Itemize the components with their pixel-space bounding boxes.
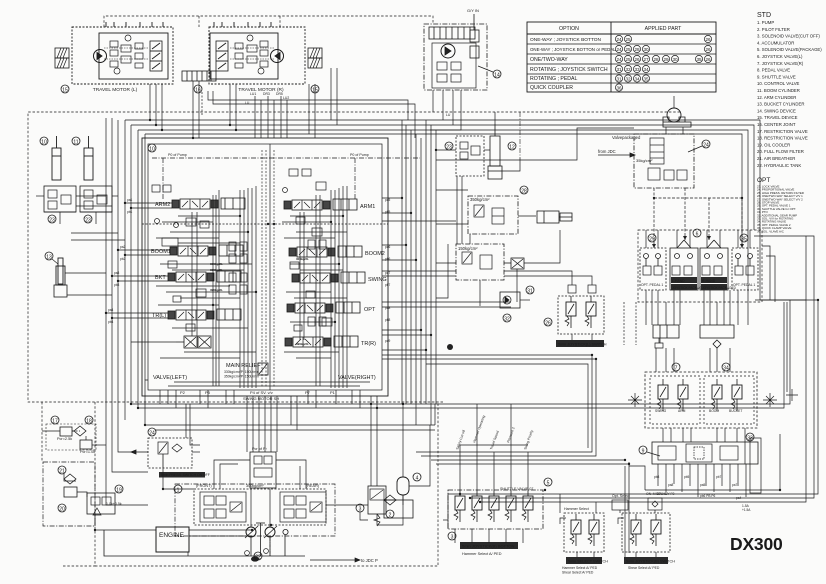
node 3b circle: [448, 532, 456, 541]
svg-text:15. TRAVEL DEVICE: 15. TRAVEL DEVICE: [757, 115, 798, 120]
svg-text:12. ARM CYLINDER: 12. ARM CYLINDER: [757, 95, 796, 100]
joystick switch bank: [618, 513, 670, 552]
svg-text:1. PUMP: 1. PUMP: [757, 20, 774, 25]
svg-text:24: 24: [616, 47, 622, 52]
wire: valve bottom port ticks: [160, 390, 360, 408]
air breather symbol: [663, 108, 691, 127]
svg-text:pa8: pa8: [385, 306, 391, 310]
svg-text:1.0k+0.5k: 1.0k+0.5k: [106, 502, 122, 506]
wire: left vertical bus: [106, 118, 148, 505]
svg-text:DR5: DR5: [276, 92, 283, 96]
pump circle 2: [265, 527, 275, 537]
svg-text:30: 30: [672, 57, 678, 62]
svg-text:5min JOYSTICK(B) SWITCH: 5min JOYSTICK(B) SWITCH: [626, 560, 675, 564]
svg-text:5min PRESS. SWITCH ON OFF: 5min PRESS. SWITCH ON OFF: [161, 473, 210, 477]
svg-text:Hammer Select A/ PED: Hammer Select A/ PED: [562, 566, 598, 570]
svg-text:13. BUCKET CYLINDER: 13. BUCKET CYLINDER: [757, 102, 804, 107]
option table: [527, 22, 716, 92]
svg-text:33: 33: [634, 67, 640, 72]
port relief valve pairs left: [229, 242, 247, 294]
joystick L switch label dark: [556, 340, 607, 347]
svg-text:to JDC P: to JDC P: [361, 558, 378, 563]
P0 of Pump labels: [168, 153, 369, 157]
wire: 5-bank feeds: [443, 404, 528, 543]
node 34 circle: [722, 363, 730, 372]
svg-text:35kg/cm²: 35kg/cm²: [636, 158, 653, 163]
svg-text:Valvepackaged: Valvepackaged: [612, 135, 641, 140]
svg-text:pa1: pa1: [127, 198, 133, 202]
svg-text:JOYSTICK PACKAGED: JOYSTICK PACKAGED: [702, 286, 737, 290]
svg-text:P0 of Pump: P0 of Pump: [168, 153, 187, 157]
svg-text:7: 7: [675, 366, 678, 372]
relief labels dark: [210, 257, 309, 346]
shuttle valve block: [652, 438, 761, 493]
wire: valve internal vertical columns right: [300, 186, 347, 388]
svg-text:24: 24: [149, 431, 155, 437]
svg-text:6. JOYSTICK VALVE(L): 6. JOYSTICK VALVE(L): [757, 54, 803, 59]
svg-text:9: 9: [642, 449, 645, 455]
wire: pump area connections: [95, 425, 430, 556]
svg-text:ROTATING ; PEDAL: ROTATING ; PEDAL: [530, 76, 577, 82]
svg-text:3. SOLENOID VALVE(CUT OFF): 3. SOLENOID VALVE(CUT OFF): [757, 34, 820, 39]
applied part circled numbers: [615, 35, 711, 91]
svg-text:BOOM2: BOOM2: [365, 251, 385, 257]
wire: swing device drops: [430, 90, 461, 130]
svg-text:36: 36: [616, 85, 622, 90]
svg-text:(FRONT): (FRONT): [196, 484, 212, 488]
valve row BOOM1: [162, 238, 243, 256]
svg-text:VALVE(LEFT): VALVE(LEFT): [153, 375, 187, 381]
svg-text:14. SWING DEVICE: 14. SWING DEVICE: [757, 108, 796, 113]
travel motor L tank hatch: [55, 48, 69, 58]
opt pedal 2: [732, 248, 758, 290]
svg-text:SWING: SWING: [368, 277, 387, 283]
svg-text:18: 18: [86, 419, 92, 425]
travel motor L assembly: [72, 22, 173, 84]
svg-text:24: 24: [703, 143, 709, 149]
node 19 circle: [115, 485, 123, 494]
svg-text:390kg/2L: 390kg/2L: [210, 288, 223, 292]
port relief valve pairs right: [308, 240, 326, 326]
pump circle 1: [246, 527, 256, 537]
svg-text:5min SELECT SWITCH: 5min SELECT SWITCH: [568, 560, 608, 564]
pump regulator right: [280, 492, 326, 522]
upper joystick valve group: [638, 230, 762, 302]
svg-text:pa6: pa6: [385, 245, 391, 249]
pump control box top: [238, 447, 290, 488]
riser labels: [245, 92, 451, 117]
wire: valve top risers: [255, 96, 287, 138]
svg-text:LU: LU: [446, 113, 451, 117]
svg-text:2. PILOT FILTER: 2. PILOT FILTER: [757, 27, 790, 32]
svg-text:pa9: pa9: [385, 339, 391, 343]
svg-text:pb1: pb1: [127, 210, 133, 214]
svg-text:33: 33: [747, 436, 753, 442]
svg-text:150kg/cm²: 150kg/cm²: [458, 246, 478, 251]
svg-text:TRAVEL MOTOR (L): TRAVEL MOTOR (L): [93, 87, 138, 93]
svg-text:35: 35: [643, 76, 649, 81]
svg-text:OPT. PEDAL 1: OPT. PEDAL 1: [641, 283, 663, 287]
svg-text:2: 2: [389, 513, 392, 519]
bank label dark: [460, 542, 518, 549]
suction lines: [189, 535, 285, 556]
overload relief block 350kg: [468, 196, 536, 234]
svg-text:300kg/2L: 300kg/2L: [296, 257, 309, 261]
svg-text:pa7: pa7: [385, 271, 391, 275]
main relief valve: [258, 363, 268, 375]
svg-text:10: 10: [41, 140, 47, 146]
svg-text:26: 26: [545, 321, 551, 327]
valve row OPT: [287, 302, 360, 313]
svg-text:DX300: DX300: [730, 534, 783, 554]
wire: valve internal pilot dash columns: [142, 150, 388, 388]
svg-text:17. RESTRICTION VALVE: 17. RESTRICTION VALVE: [757, 129, 808, 134]
svg-text:32: 32: [625, 67, 631, 72]
valve row TR(L): [168, 309, 241, 320]
svg-text:G/Y IN: G/Y IN: [467, 8, 479, 13]
oil cooler / filter block: [43, 462, 122, 526]
opt pedal 1: [640, 248, 666, 290]
svg-text:28: 28: [653, 57, 659, 62]
svg-text:12: 12: [509, 145, 515, 151]
opt line block lower: [456, 244, 504, 280]
svg-text:16: 16: [195, 88, 201, 94]
solenoid valve package: [598, 134, 694, 188]
svg-text:5min JOYSTICK(L) SWITCH: 5min JOYSTICK(L) SWITCH: [558, 343, 607, 347]
svg-text:pa5: pa5: [385, 198, 391, 202]
svg-text:14: 14: [494, 73, 500, 79]
full flow filter block: [270, 500, 413, 556]
svg-text:20: 20: [59, 507, 65, 513]
svg-text:21. AIR BREATHER: 21. AIR BREATHER: [757, 156, 795, 161]
svg-text:ENGINE: ENGINE: [159, 532, 185, 539]
svg-text:9. SHUTTLE VALVE: 9. SHUTTLE VALVE: [757, 74, 796, 79]
svg-text:32: 32: [504, 317, 510, 323]
svg-text:18. RESTRICTION VALVE: 18. RESTRICTION VALVE: [757, 136, 808, 141]
node 17 circle: [51, 416, 59, 425]
svg-text:LU1: LU1: [250, 92, 256, 96]
wire: valve left port stubs: [106, 203, 176, 342]
node 12b circle: [508, 142, 516, 151]
rotated riser labels: [455, 415, 534, 451]
svg-text:ARM: ARM: [678, 409, 686, 413]
node 10 circle: [40, 137, 48, 146]
5-unit solenoid bank: [448, 490, 543, 529]
port labels under valve: [180, 390, 336, 401]
svg-text:pb3: pb3: [114, 283, 120, 287]
stop valve symbol: [504, 258, 524, 269]
lock valve block 2: [80, 186, 112, 212]
svg-text:ONE-WAY ; JOYSTICK BOTTON: ONE-WAY ; JOYSTICK BOTTON: [530, 37, 602, 43]
svg-text:DR3: DR3: [263, 92, 270, 96]
svg-text:36. SOL. VLAVE A/C: 36. SOL. VLAVE A/C: [757, 229, 784, 233]
node 13 circle: [45, 252, 58, 264]
svg-text:16. CENTER JOINT: 16. CENTER JOINT: [757, 122, 796, 127]
valve row BOOM2: [289, 246, 362, 257]
svg-text:22: 22: [255, 555, 261, 561]
wire: right bus connects: [436, 112, 634, 298]
svg-text:29: 29: [663, 57, 669, 62]
main control valve outer box: [142, 138, 388, 396]
joystick L switch bank (mid right): [558, 278, 604, 334]
wire: restriction valve links: [42, 431, 106, 526]
port label ticks left: [108, 198, 391, 343]
svg-text:Hammer Select: Hammer Select: [564, 507, 589, 511]
svg-text:10. CONTROL VALVE: 10. CONTROL VALVE: [757, 81, 800, 86]
node 3 circle: [356, 504, 364, 513]
svg-text:26: 26: [634, 57, 640, 62]
bank pilot risers: [460, 445, 528, 490]
svg-text:ARM1: ARM1: [360, 204, 375, 210]
PTO block: [500, 292, 530, 308]
wire: arm cyl connections: [36, 196, 125, 295]
svg-text:4: 4: [416, 476, 419, 482]
svg-text:330kg/cm²/P↑150L/min: 330kg/cm²/P↑150L/min: [224, 370, 259, 374]
bucket cylinder: [54, 258, 67, 297]
wire: right far bus: [646, 230, 818, 490]
svg-text:from JDC: from JDC: [598, 149, 616, 154]
shuttle port labels: [654, 475, 751, 512]
node 16 circle: [194, 85, 202, 94]
svg-text:350kg/cm²: 350kg/cm²: [470, 197, 490, 202]
node 22 circle tank: [254, 552, 262, 561]
svg-text:10: 10: [149, 147, 155, 153]
node 33 circle: [746, 433, 754, 442]
node 15 circle L: [61, 85, 69, 94]
svg-text:pb8: pb8: [385, 318, 391, 322]
pump regulator left: [200, 492, 246, 522]
solenoid cutoff valve + accumulator: [368, 486, 386, 526]
svg-text:11. BOOM CYLINDER: 11. BOOM CYLINDER: [757, 88, 800, 93]
svg-text:+1.5A: +1.5A: [742, 508, 751, 512]
wire: breather/tank line: [666, 96, 683, 134]
arm cylinder block w/ lock valve (right of valve): [456, 124, 502, 179]
node 26 circle: [544, 318, 552, 327]
svg-text:19: 19: [116, 488, 122, 494]
svg-text:OPT: OPT: [757, 177, 770, 184]
node 15 circle R: [311, 85, 319, 94]
svg-text:ONE/TWO-WAY: ONE/TWO-WAY: [530, 57, 568, 63]
svg-text:pb6: pb6: [385, 257, 391, 261]
svg-text:pa5: pa5: [700, 483, 706, 487]
svg-text:OPT: OPT: [364, 307, 376, 313]
node dark junction: [447, 344, 453, 350]
wire: mid-right L bus: [382, 302, 636, 464]
svg-text:pb4: pb4: [108, 320, 114, 324]
node 28 circle: [520, 186, 528, 195]
node 29 circle: [648, 234, 656, 243]
svg-text:P0 of Pump: P0 of Pump: [350, 153, 369, 157]
svg-text:Pcr=1.0k: Pcr=1.0k: [80, 450, 95, 454]
node 6 circle: [693, 229, 701, 238]
svg-text:34: 34: [634, 76, 640, 81]
pressure switch label dark: [159, 472, 210, 478]
svg-text:pb8: pb8: [654, 475, 660, 479]
svg-text:LU: LU: [245, 101, 250, 105]
svg-text:7. JOYSTICK VALVE(R): 7. JOYSTICK VALVE(R): [757, 61, 804, 66]
svg-text:pb5: pb5: [385, 210, 391, 214]
svg-text:34: 34: [643, 67, 649, 72]
svg-text:25: 25: [625, 57, 631, 62]
valve row SWING: [292, 272, 365, 283]
svg-text:SHUTTLE VALVE 07: SHUTTLE VALVE 07: [500, 487, 533, 491]
svg-text:23: 23: [85, 218, 91, 224]
svg-text:15: 15: [62, 88, 68, 94]
travel motor R tank hatch: [308, 48, 322, 58]
lock valve block 1: [44, 186, 76, 212]
svg-text:STD: STD: [757, 12, 771, 19]
svg-text:Pcr=2.5k: Pcr=2.5k: [57, 437, 72, 441]
to JDC P arrow: [310, 558, 360, 562]
node 20 circle: [58, 504, 66, 513]
svg-text:R-HAND: R-HAND: [702, 279, 716, 283]
svg-text:BUCKET: BUCKET: [729, 409, 742, 413]
STD parts list: [757, 12, 822, 168]
node 21 circle: [58, 466, 66, 475]
node 32 circle: [503, 314, 511, 323]
node 1 circle: [174, 485, 182, 494]
svg-text:5min JOYSTICK(B) BOTTON: 5min JOYSTICK(B) BOTTON: [462, 544, 514, 549]
svg-text:VALVE(RIGHT): VALVE(RIGHT): [338, 375, 376, 381]
svg-text:30: 30: [643, 47, 649, 52]
svg-text:300kg/cm²: 300kg/cm²: [246, 484, 264, 488]
svg-text:23: 23: [446, 145, 452, 151]
top dashed bus: [104, 16, 433, 27]
node 9 circle: [639, 446, 660, 456]
svg-text:P4 of SV. v/v: P4 of SV. v/v: [250, 390, 273, 395]
joystick switch label dark: [624, 557, 675, 564]
restriction valves 17/18: [60, 426, 92, 449]
svg-text:P2: P2: [180, 390, 186, 395]
pilot pressure switch block: [131, 438, 192, 468]
node 10c circle: [148, 144, 156, 153]
svg-text:Shear Select A/ PED: Shear Select A/ PED: [562, 571, 594, 575]
svg-text:23: 23: [49, 218, 55, 224]
select switch label dark: [566, 557, 608, 564]
svg-text:pb2: pb2: [120, 257, 126, 261]
shuttle block drop lines: [658, 464, 746, 497]
svg-text:6: 6: [696, 232, 699, 238]
boom cylinder 2: [84, 136, 93, 180]
OPT parts list: [757, 177, 804, 233]
svg-text:3: 3: [359, 507, 362, 513]
svg-text:Shear Select A/ PED: Shear Select A/ PED: [628, 566, 660, 570]
svg-text:26: 26: [705, 57, 711, 62]
wire: valve right port stubs: [382, 176, 592, 350]
svg-text:LU2: LU2: [283, 96, 289, 100]
small opt boxes above: [612, 498, 662, 510]
svg-text:pb5: pb5: [684, 475, 690, 479]
svg-text:27: 27: [643, 57, 649, 62]
boom cylinder 1: [52, 136, 61, 180]
wire: far-left dashed pilot frame: [28, 112, 680, 566]
node 18 circle: [85, 416, 93, 425]
accumulator: [397, 477, 409, 505]
gear pump: [283, 529, 288, 534]
valve row TR(R): [285, 336, 358, 347]
node 24 circle pkg: [688, 140, 710, 152]
swing relief valve: [470, 14, 479, 58]
svg-text:24: 24: [616, 37, 622, 42]
restriction valve dashed enclosure: [46, 424, 96, 450]
svg-text:ROTATING ; JOYSTICK SWITCH: ROTATING ; JOYSTICK SWITCH: [530, 67, 608, 73]
svg-text:TR(R): TR(R): [361, 341, 376, 347]
svg-text:25: 25: [625, 47, 631, 52]
svg-text:330kg/2L: 330kg/2L: [210, 268, 223, 272]
wire: right edge link: [755, 246, 806, 302]
node 35 circle: [740, 234, 748, 243]
wire: bottom long buses: [131, 300, 790, 486]
svg-text:25: 25: [625, 37, 631, 42]
L-hand joystick: [670, 240, 707, 290]
svg-text:OPT. PEDAL 1: OPT. PEDAL 1: [733, 283, 755, 287]
svg-text:5: 5: [547, 481, 550, 487]
wire: travel motor drops: [150, 68, 415, 138]
svg-text:SWING: SWING: [655, 409, 667, 413]
svg-text:35: 35: [696, 57, 702, 62]
svg-text:(REAR): (REAR): [306, 484, 320, 488]
valve row BKT: [168, 271, 241, 282]
svg-text:SWING MOTOR SH: SWING MOTOR SH: [243, 396, 279, 401]
svg-text:pa3: pa3: [114, 271, 120, 275]
node 14 circle: [478, 66, 501, 79]
svg-text:4. ACCUMULATOR: 4. ACCUMULATOR: [757, 40, 794, 45]
svg-text:ONE-WAY ; JOYSTICK BOTTON or P: ONE-WAY ; JOYSTICK BOTTON or PEDAL: [530, 47, 616, 52]
wire: valve internal vertical columns left: [192, 186, 256, 388]
node 2 circle: [386, 510, 394, 519]
svg-text:350kg/cm²/P↑150L/min: 350kg/cm²/P↑150L/min: [224, 375, 259, 379]
svg-text:OPTION: OPTION: [559, 26, 579, 32]
svg-text:330kg/2L: 330kg/2L: [210, 262, 223, 266]
svg-text:APPLIED PART: APPLIED PART: [645, 26, 683, 32]
svg-text:19. OIL COOLER: 19. OIL COOLER: [757, 142, 790, 147]
svg-text:31: 31: [616, 76, 622, 81]
drain tee: [260, 523, 262, 556]
svg-text:3: 3: [451, 535, 454, 541]
cross arrows: [628, 389, 798, 407]
svg-text:31: 31: [616, 67, 622, 72]
svg-text:28: 28: [521, 189, 527, 195]
select switch bank: [560, 513, 604, 552]
node 31 circle: [526, 286, 534, 295]
wire: package drops to joystick bank: [654, 188, 742, 248]
svg-text:34: 34: [723, 366, 729, 372]
svg-text:21: 21: [59, 469, 65, 475]
node 23 circles: [48, 215, 56, 224]
valve row aux left: [176, 336, 211, 348]
svg-text:pb7: pb7: [385, 283, 391, 287]
valve row ARM2: [172, 198, 245, 209]
svg-text:20. FULL FLOW FILTER: 20. FULL FLOW FILTER: [757, 149, 804, 154]
svg-text:31: 31: [527, 289, 533, 295]
engine box: [156, 527, 189, 552]
node 24c circle: [148, 428, 156, 437]
svg-text:5. SOLENOID VALVE(PACKAGE): 5. SOLENOID VALVE(PACKAGE): [757, 47, 822, 52]
wire: bottom right collection: [448, 300, 818, 557]
svg-text:1: 1: [177, 488, 180, 494]
main pump assembly: [175, 484, 335, 562]
arrowheads: [652, 236, 744, 248]
svg-text:pa4: pa4: [108, 308, 114, 312]
svg-text:pb6 PB P6: pb6 PB P6: [700, 494, 715, 498]
wire: pilot dash-dot inside valve: [152, 158, 420, 200]
svg-text:26: 26: [705, 37, 711, 42]
svg-text:11: 11: [73, 140, 78, 146]
svg-text:32: 32: [625, 76, 631, 81]
wire: top nested loops: [125, 120, 760, 300]
wire: center spine verticals: [402, 120, 436, 425]
svg-text:pa8: pa8: [668, 483, 674, 487]
